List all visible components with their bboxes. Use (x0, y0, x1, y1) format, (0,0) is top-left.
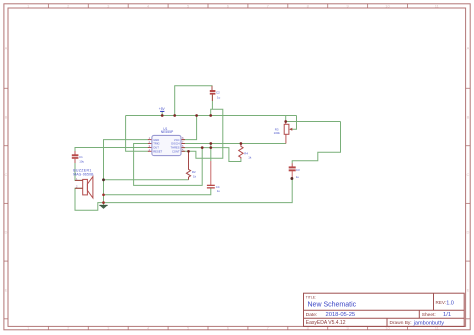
svg-text:DISCH: DISCH (171, 142, 179, 146)
svg-text:1/1: 1/1 (443, 312, 451, 318)
svg-text:REV:: REV: (436, 300, 447, 305)
svg-text:1k: 1k (193, 174, 197, 178)
svg-text:1k: 1k (248, 155, 252, 159)
svg-text:A: A (467, 46, 470, 51)
svg-text:New Schematic: New Schematic (308, 301, 357, 308)
svg-text:C3: C3 (296, 168, 300, 172)
svg-text:B: B (467, 114, 470, 119)
svg-text:EasyEDA V5.4.12: EasyEDA V5.4.12 (306, 320, 346, 326)
svg-text:1u: 1u (217, 96, 221, 100)
svg-text:MAG-9650B: MAG-9650B (73, 173, 94, 177)
svg-text:E: E (467, 287, 470, 292)
svg-text:10u: 10u (79, 160, 84, 164)
svg-text:TITLE:: TITLE: (306, 295, 316, 299)
svg-text:+5V: +5V (159, 107, 166, 111)
svg-text:C1: C1 (79, 155, 83, 159)
svg-text:jambonbutty: jambonbutty (413, 320, 445, 326)
svg-text:1u: 1u (296, 175, 300, 179)
svg-text:1.0: 1.0 (446, 301, 454, 307)
svg-text:E: E (5, 287, 8, 292)
svg-text:C2: C2 (216, 91, 220, 95)
svg-text:THRES: THRES (170, 146, 179, 150)
svg-text:D: D (467, 230, 470, 235)
svg-text:Date:: Date: (306, 312, 317, 318)
svg-text:VCC: VCC (174, 138, 180, 142)
svg-text:D: D (4, 230, 7, 235)
svg-text:GND: GND (153, 138, 159, 142)
svg-text:10: 10 (385, 3, 390, 8)
svg-text:Sheet:: Sheet: (422, 312, 436, 318)
svg-text:NE555P: NE555P (161, 130, 174, 134)
svg-text:RESET: RESET (153, 150, 162, 154)
svg-text:CONT: CONT (172, 150, 180, 154)
svg-text:2018-05-25: 2018-05-25 (326, 312, 356, 318)
svg-text:C: C (467, 172, 470, 177)
svg-text:TRIG: TRIG (153, 142, 159, 146)
svg-text:OUT: OUT (153, 146, 159, 150)
svg-text:1u: 1u (217, 189, 221, 193)
svg-text:100k: 100k (274, 131, 281, 135)
svg-text:A: A (5, 46, 8, 51)
svg-text:B: B (5, 114, 8, 119)
svg-text:C: C (4, 172, 7, 177)
svg-text:Drawn By:: Drawn By: (390, 320, 412, 326)
